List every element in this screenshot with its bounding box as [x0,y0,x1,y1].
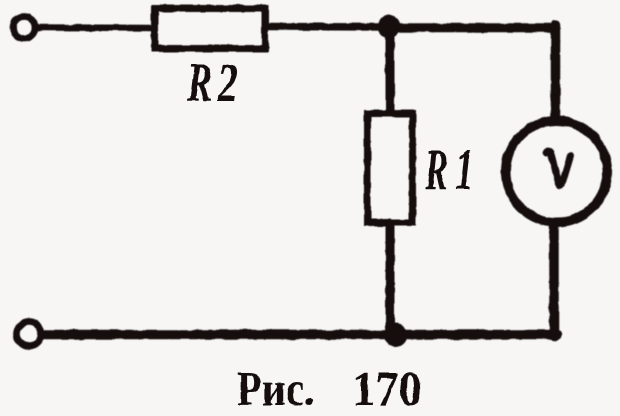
caption: Рис. 170 [237,361,423,416]
resistor R2 [155,9,266,49]
node A (top junction) [378,15,401,38]
wire R1 to node B [386,223,395,333]
terminal T1 top-left [13,17,35,39]
resistor R1 [368,114,413,223]
label R2 [186,52,238,113]
wire R2 to node A [268,23,388,31]
voltmeter U1 [506,121,608,223]
label R1 [424,137,474,202]
wire T1 to R2 [37,24,154,31]
wire node A to voltmeter branch (top) [389,23,555,32]
node B (bottom junction) [384,323,408,347]
wire voltmeter to bottom wire [549,225,559,336]
svg-text:R: R [186,52,212,113]
svg-text:Рис.: Рис. [237,361,315,416]
svg-text:2: 2 [217,52,238,113]
terminal T2 bottom-left [17,322,42,347]
svg-text:1: 1 [455,137,474,202]
voltmeter V letter [546,151,571,185]
svg-text:R: R [424,137,448,202]
bottom wire T2 to node B to voltmeter branch [45,330,557,340]
svg-text:170: 170 [352,361,422,416]
wire node A down to R1 [386,30,395,112]
wire down to voltmeter [551,25,561,118]
